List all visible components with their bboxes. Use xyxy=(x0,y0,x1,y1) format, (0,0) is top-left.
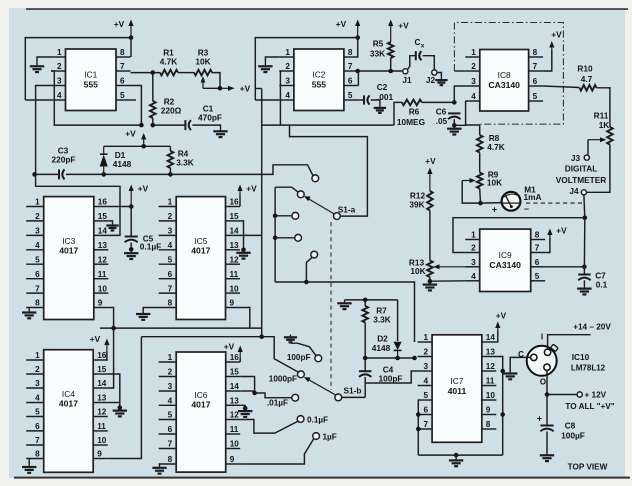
wire S1-a contact4 link xyxy=(275,237,295,239)
wire R7 rail xyxy=(345,299,398,301)
svg-text:5: 5 xyxy=(535,272,540,281)
node IC6 pin13 ground xyxy=(243,406,248,411)
wire R4 bottom lead xyxy=(169,168,171,174)
jack J3 xyxy=(584,155,589,160)
svg-text:C2: C2 xyxy=(377,82,388,92)
svg-text:J1: J1 xyxy=(402,75,412,85)
svg-text:IC5: IC5 xyxy=(194,236,207,246)
ground IC1 pin1 xyxy=(30,61,44,72)
svg-text:1mA: 1mA xyxy=(524,192,542,202)
svg-text:2: 2 xyxy=(471,62,476,71)
ground IC4 pin8 xyxy=(22,464,36,473)
wire IC1 pin5 stub xyxy=(131,99,137,101)
svg-text:6: 6 xyxy=(35,270,40,279)
node IC2 pin6-7 tie xyxy=(355,69,360,74)
svg-text:100µF: 100µF xyxy=(561,431,585,441)
svg-text:+V: +V xyxy=(496,311,507,321)
svg-text:TOP VIEW: TOP VIEW xyxy=(568,463,608,472)
ground IC6 pin8 xyxy=(152,465,166,474)
svg-text:3: 3 xyxy=(424,362,429,371)
svg-text:IC8: IC8 xyxy=(498,70,511,80)
wire C6 bottom xyxy=(453,119,455,125)
svg-text:555: 555 xyxy=(312,79,327,89)
wire IC1 pin2 to trigger line xyxy=(51,71,141,125)
svg-text:4: 4 xyxy=(168,397,173,406)
IC IC1 555 box xyxy=(51,48,131,110)
wire IC2 pin7 line to J1 xyxy=(358,70,402,72)
wire IC3 pin15 to ground xyxy=(108,221,112,223)
wire D1-R4 +V rail xyxy=(104,145,171,147)
wire IC7 right bus xyxy=(502,371,504,455)
svg-text:14: 14 xyxy=(230,227,240,236)
wire R2 bottom lead xyxy=(152,118,154,125)
power +V arrow R5 xyxy=(388,20,393,43)
svg-text:10K: 10K xyxy=(410,266,425,276)
wire IC7 pin14 to +V xyxy=(496,331,498,342)
svg-text:3: 3 xyxy=(35,379,40,388)
svg-text:1: 1 xyxy=(168,198,173,207)
wire IC8 pin6 to R10 xyxy=(543,86,579,88)
svg-text:IC6: IC6 xyxy=(194,390,207,400)
switch S1-a contact 2 xyxy=(297,191,304,198)
svg-text:5: 5 xyxy=(424,391,429,400)
node C6 bottom ground xyxy=(452,123,457,128)
svg-text:CA3140: CA3140 xyxy=(489,260,521,270)
frame top border xyxy=(26,8,628,10)
svg-text:0.1: 0.1 xyxy=(596,279,608,289)
resistor R4 xyxy=(168,151,174,168)
wire IC1 pin6 to threshold line xyxy=(131,86,142,126)
svg-text:15: 15 xyxy=(230,212,240,221)
wire R8 top to ground node xyxy=(466,125,480,135)
wire R12 to R13 xyxy=(429,211,431,261)
capacitor C2 xyxy=(364,95,370,104)
svg-text:7: 7 xyxy=(120,62,125,71)
wire IC7 pin3 to C4 bottom net xyxy=(365,371,417,383)
ground IC5 pin13 xyxy=(236,250,250,259)
svg-text:4.7K: 4.7K xyxy=(487,142,505,152)
switch S1-b contact 0.1uF xyxy=(297,416,304,423)
svg-text:8: 8 xyxy=(35,299,40,308)
wire IC7 pin5-6-7 bus xyxy=(417,400,419,455)
power +V arrow IC5 xyxy=(237,185,242,196)
ground R7 rail xyxy=(337,300,351,309)
svg-text:IC7: IC7 xyxy=(450,376,463,386)
svg-text:+ 12V: + 12V xyxy=(585,391,607,400)
wire R8 to R9 xyxy=(479,153,481,173)
wire Cx to J2 xyxy=(423,56,435,70)
svg-text:8: 8 xyxy=(168,455,173,464)
wire IC9 pin6 to C7 node xyxy=(545,266,584,268)
wire meter + lead xyxy=(481,202,502,205)
wire R9 wiper return xyxy=(462,181,480,204)
wire R13 bottom to ground xyxy=(429,277,431,281)
svg-text:+V: +V xyxy=(90,334,101,344)
pot R11 wiper arrow xyxy=(588,137,606,142)
power +V arrow R12 xyxy=(427,168,432,192)
wire R6 to C6 node xyxy=(422,101,455,103)
svg-text:5: 5 xyxy=(168,411,173,420)
svg-text:1: 1 xyxy=(35,198,40,207)
svg-text:4017: 4017 xyxy=(59,399,78,409)
svg-text:4011: 4011 xyxy=(448,386,467,396)
svg-text:+V: +V xyxy=(246,184,257,194)
wire IC6 pin13 to ground xyxy=(240,405,245,408)
wire IC6 pin9 to 1uF contact xyxy=(240,439,314,465)
wire IC2 pin1 ground xyxy=(265,57,279,61)
wire IC7 pin13 to pin12 xyxy=(496,357,502,372)
svg-text:3: 3 xyxy=(168,382,173,391)
svg-text:C8: C8 xyxy=(565,421,576,431)
wire meter - dashed to J4 line xyxy=(526,202,585,204)
svg-text:C: C xyxy=(415,37,421,47)
svg-text:IC2: IC2 xyxy=(312,69,325,79)
svg-text:13: 13 xyxy=(230,241,240,250)
node IC2 +V rail junction xyxy=(355,35,360,40)
svg-text:LM78L12: LM78L12 xyxy=(571,364,606,373)
resistor R7 xyxy=(362,306,368,323)
wire R5 bottom lead xyxy=(390,58,392,71)
wire R11 bottom to J4 xyxy=(587,145,610,193)
ground C1 xyxy=(213,128,227,137)
svg-text:16: 16 xyxy=(97,351,107,360)
ground 100pF contact xyxy=(284,335,297,343)
svg-text:5: 5 xyxy=(533,92,538,101)
wire R1 to R3 xyxy=(178,72,194,74)
svg-text:16: 16 xyxy=(230,198,240,207)
node IC7 pin9 xyxy=(500,412,505,417)
wire IC9 pin2 to top rail xyxy=(453,218,585,253)
wire S1-a common to R6 net xyxy=(290,125,368,216)
wire J4 down to IC9 rail xyxy=(583,195,586,217)
wire clock node to .01 contact xyxy=(255,393,292,398)
svg-text:1: 1 xyxy=(285,48,290,57)
svg-text:4: 4 xyxy=(285,91,290,100)
svg-text:4.7K: 4.7K xyxy=(160,57,178,67)
resistor R13 pot xyxy=(427,261,433,278)
svg-text:12: 12 xyxy=(98,255,108,264)
node IC3 pin16 / C5 riser xyxy=(129,204,134,209)
capacitor C8 xyxy=(540,426,553,432)
wire IC6 pin14 link xyxy=(240,390,254,392)
IC IC6 4017 box xyxy=(159,352,241,472)
svg-text:220pF: 220pF xyxy=(52,155,76,165)
svg-text:3: 3 xyxy=(57,77,62,86)
switch S1-b common xyxy=(335,394,342,401)
ground C8 xyxy=(540,453,554,462)
svg-text:10: 10 xyxy=(230,440,240,449)
wire IC6 pin8 to ground xyxy=(158,464,161,465)
wire IC2 net down to IC5 pin14 xyxy=(261,89,263,337)
wire C7 bottom xyxy=(583,280,585,286)
wire trigger line xyxy=(262,124,394,126)
IC IC7 4011 box xyxy=(418,333,497,442)
wire R2 top lead xyxy=(152,73,154,101)
svg-text:3: 3 xyxy=(285,77,290,86)
svg-text:4: 4 xyxy=(35,241,40,250)
svg-text:8: 8 xyxy=(533,48,538,57)
svg-text:11: 11 xyxy=(98,270,107,279)
svg-text:1: 1 xyxy=(168,353,173,362)
svg-text:1: 1 xyxy=(471,48,476,57)
switch S1-a contact 5 xyxy=(311,251,318,258)
switch S1-b contact .01uF xyxy=(292,394,299,401)
diode D1 xyxy=(100,146,108,174)
wire IC1 pin3 output down xyxy=(36,86,51,175)
svg-text:8: 8 xyxy=(535,231,540,240)
wire IC2 pin2 riser xyxy=(279,71,280,125)
node IC7 pin6 xyxy=(416,412,421,417)
jack J2 xyxy=(432,70,437,75)
svg-text:9: 9 xyxy=(486,406,491,415)
svg-text:J4: J4 xyxy=(569,186,579,196)
wire IC6 pin15-14 riser to clock node xyxy=(240,377,254,394)
svg-text:7: 7 xyxy=(533,62,538,71)
wire trigger line to C1 xyxy=(153,124,186,126)
svg-text:10: 10 xyxy=(230,284,240,293)
wire R3 right to wiper node xyxy=(212,73,220,89)
wire IC8 pin2 stub to shield xyxy=(454,70,465,72)
svg-text:7: 7 xyxy=(35,436,40,445)
node D1 anode / timing line xyxy=(101,172,106,177)
wire bus2 to 1000pF contact xyxy=(141,337,299,373)
wire J1 to Cx xyxy=(408,56,416,69)
wire IC3 pin16 to +V / C5 xyxy=(108,206,131,208)
capacitor Cx xyxy=(416,51,422,60)
switch S1-b contact 100pF xyxy=(315,355,322,362)
switch S1 gang dashed link xyxy=(330,222,332,390)
node D2 bottom xyxy=(395,356,400,361)
capacitor C5 xyxy=(125,237,138,243)
node IC9 pin6 / C7 xyxy=(582,265,587,270)
power +V arrow IC8 xyxy=(549,41,554,50)
node +V arrow / rail xyxy=(141,144,146,149)
svg-text:3: 3 xyxy=(35,227,40,236)
svg-text:13: 13 xyxy=(230,397,240,406)
resistor R12 xyxy=(427,191,433,211)
IC IC2 555 box xyxy=(279,48,358,110)
svg-text:8: 8 xyxy=(486,420,491,429)
node R13 bottom xyxy=(428,279,433,284)
wire C7 riser to rail xyxy=(583,218,585,267)
svg-text:4148: 4148 xyxy=(372,343,391,353)
ground C2 xyxy=(374,105,386,113)
wire IC10 input xyxy=(548,335,591,349)
svg-text:13: 13 xyxy=(97,394,107,403)
wire IC1 pin7 line xyxy=(131,72,161,74)
switch S1-b contact 1000pF xyxy=(298,371,305,378)
svg-text:2: 2 xyxy=(35,212,40,221)
node bus contact3 xyxy=(273,214,278,219)
node bus contact4 xyxy=(273,236,278,241)
ground IC3 pin8 xyxy=(22,310,36,319)
ground IC4 pin13 xyxy=(113,408,127,417)
svg-text:8: 8 xyxy=(168,299,173,308)
svg-text:VOLTMETER: VOLTMETER xyxy=(556,175,607,185)
IC IC8 CA3140 box xyxy=(465,48,543,111)
svg-text:3: 3 xyxy=(168,227,173,236)
wire IC5 pin15 to pin13 xyxy=(240,221,244,250)
power +V arrow IC4 xyxy=(104,339,109,352)
svg-text:7: 7 xyxy=(168,440,173,449)
power +V arrow IC6 xyxy=(238,346,243,359)
capacitor C1 xyxy=(185,120,191,130)
wire IC2 pin4 to +V rail xyxy=(255,99,279,101)
wire R7 top lead xyxy=(364,300,366,306)
svg-text:11: 11 xyxy=(230,270,239,279)
svg-text:15: 15 xyxy=(230,368,240,377)
svg-text:5: 5 xyxy=(35,255,40,264)
regulator IC10 body xyxy=(527,344,558,376)
wire R13 node to IC9 pin4 xyxy=(430,280,465,282)
svg-text:3.3K: 3.3K xyxy=(373,315,391,325)
wire IC10 common to ground xyxy=(510,357,530,370)
svg-text:4: 4 xyxy=(471,272,476,281)
svg-text:6: 6 xyxy=(348,77,353,86)
wire bus down to IC4 pin14 xyxy=(108,328,114,388)
wire output to +12V jack xyxy=(547,394,577,396)
svg-text:6: 6 xyxy=(168,425,173,434)
node IC6 clock / .01 contact xyxy=(252,391,257,396)
svg-text:4.7: 4.7 xyxy=(581,74,593,84)
wire R10 to R11 xyxy=(597,88,610,127)
pot R13 wiper arrow xyxy=(433,264,479,269)
svg-text:TO ALL "+V": TO ALL "+V" xyxy=(565,402,614,411)
wire R11 wiper to J3 xyxy=(587,140,589,155)
svg-text:3: 3 xyxy=(471,77,476,86)
svg-text:IC1: IC1 xyxy=(84,69,97,79)
wire bus IC3-pin9 row xyxy=(100,327,262,329)
wire IC9 pin7 to +V xyxy=(545,238,550,253)
svg-text:+V: +V xyxy=(336,19,347,29)
svg-text:5: 5 xyxy=(168,255,173,264)
svg-text:9: 9 xyxy=(230,455,235,464)
svg-text:11: 11 xyxy=(486,377,495,386)
node R7 bottom / C4 top xyxy=(363,356,368,361)
arrow to +V from R3 xyxy=(220,86,235,91)
wire IC10 output down xyxy=(546,370,548,394)
svg-text:5: 5 xyxy=(35,408,40,417)
node IC3 pin9 / bus xyxy=(111,326,116,331)
capacitor C6 xyxy=(448,113,460,119)
svg-text:R5: R5 xyxy=(373,39,384,49)
resistor R6 xyxy=(402,100,422,106)
wire C8 bottom xyxy=(546,432,548,453)
meter M1 xyxy=(502,192,521,211)
IC IC9 CA3140 box xyxy=(465,229,545,291)
svg-text:10K: 10K xyxy=(195,57,210,67)
wire timing line left segment xyxy=(35,173,59,175)
svg-text:4148: 4148 xyxy=(113,159,132,169)
wire IC2 pin8 riser xyxy=(357,38,359,57)
svg-text:+V: +V xyxy=(138,184,149,194)
switch S1-a contact 4 xyxy=(295,234,302,241)
node pin6 riser / trigger line xyxy=(139,123,144,128)
wire IC3 pin9 down to bus xyxy=(108,308,113,329)
node R4 bottom / timing line xyxy=(168,172,173,177)
switch S1-a wiper arm xyxy=(304,196,334,214)
svg-text:33K: 33K xyxy=(370,49,385,59)
svg-text:0.1µF: 0.1µF xyxy=(140,242,161,252)
svg-text:16: 16 xyxy=(230,353,240,362)
svg-text:.001: .001 xyxy=(377,92,394,102)
svg-text:4: 4 xyxy=(35,394,40,403)
pot R9 wiper arrow xyxy=(462,178,476,183)
wire R7 bottom xyxy=(364,323,366,359)
wire +V rail to IC1 pins 4 and 8 xyxy=(25,38,131,100)
wire 100pF contact to ground xyxy=(291,343,317,356)
pot R3 wiper arrow xyxy=(201,76,206,88)
power +V arrow IC9 xyxy=(547,229,552,239)
svg-text:1µF: 1µF xyxy=(323,432,337,441)
capacitor C7 xyxy=(578,275,590,281)
wire IC8 pin7 to +V xyxy=(543,50,552,71)
svg-text:J3: J3 xyxy=(571,153,581,163)
frame bottom border xyxy=(14,477,630,479)
wire D2 net xyxy=(365,357,414,359)
resistor R9 pot xyxy=(477,173,483,189)
wire C4 top lead xyxy=(364,358,366,371)
svg-text:7: 7 xyxy=(424,420,429,429)
svg-text:8: 8 xyxy=(120,48,125,57)
resistor R3 potentiometer xyxy=(194,70,212,76)
svg-text:+V: +V xyxy=(398,21,409,31)
svg-text:6: 6 xyxy=(35,422,40,431)
svg-text:6: 6 xyxy=(168,270,173,279)
svg-text:6: 6 xyxy=(120,77,125,86)
wire IC5 pin9 to bus xyxy=(240,308,250,329)
svg-text:7: 7 xyxy=(168,284,173,293)
wire C1 to ground xyxy=(192,125,220,128)
svg-text:4017: 4017 xyxy=(59,246,78,256)
svg-text:7: 7 xyxy=(535,244,540,253)
wire C6 node to IC8 pin3 xyxy=(454,86,465,102)
svg-text:IC9: IC9 xyxy=(499,250,512,260)
wire +V rail IC2 xyxy=(255,38,357,100)
svg-text:+14 – 20V: +14 – 20V xyxy=(573,323,611,332)
jack J1 xyxy=(403,69,408,74)
svg-text:I: I xyxy=(541,333,543,342)
svg-text:1: 1 xyxy=(471,231,476,240)
svg-text:5: 5 xyxy=(348,91,353,100)
resistor R10 xyxy=(580,85,597,91)
svg-text:+V: +V xyxy=(125,129,136,139)
node contact5 / Cext line xyxy=(304,280,309,285)
svg-text:3: 3 xyxy=(471,258,476,267)
svg-text:0.1µF: 0.1µF xyxy=(307,415,328,424)
ground IC6 pin13 xyxy=(238,408,252,417)
svg-text:S1-b: S1-b xyxy=(344,385,362,395)
svg-text:12: 12 xyxy=(97,408,107,417)
wire IC1 pin8 to +V rail xyxy=(130,38,132,57)
wire IC1 pin1 to ground xyxy=(37,57,51,61)
wire IC5 pin8 to ground xyxy=(143,308,159,312)
wire rail to D2 xyxy=(397,300,399,341)
wire Cext line to IC7 xyxy=(275,282,414,342)
ground C6 xyxy=(447,125,461,134)
svg-text:10MEG: 10MEG xyxy=(397,117,425,127)
svg-text:R6: R6 xyxy=(409,107,420,117)
ground C7 xyxy=(577,286,591,294)
wire trigger net to R6 xyxy=(394,102,402,125)
wire IC6 pin16 to +V xyxy=(239,358,241,362)
svg-text:15: 15 xyxy=(97,365,107,374)
wire IC1 pin4 to +V rail xyxy=(25,99,51,101)
svg-text:+V: +V xyxy=(224,342,235,352)
svg-text:1000pF: 1000pF xyxy=(269,374,297,383)
svg-text:2: 2 xyxy=(57,62,62,71)
wire IC4 pin15 to pin13 ground xyxy=(108,374,120,408)
